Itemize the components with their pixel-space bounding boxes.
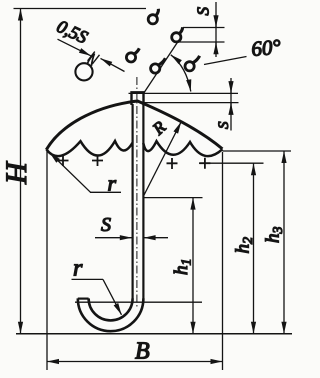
spoke tip cross 1 xyxy=(58,155,69,166)
radius R line xyxy=(143,122,181,197)
spoke tip cross 4 xyxy=(199,158,210,169)
ferrule xyxy=(132,92,144,105)
svg-text:h2: h2 xyxy=(233,237,257,254)
shaft left line xyxy=(132,104,134,299)
leader 0.5S lower xyxy=(101,58,125,71)
dimension S shaft leader left xyxy=(95,237,132,239)
hook tip level line xyxy=(75,301,202,303)
dimension S shaft leader right xyxy=(144,237,168,239)
dimension H line xyxy=(20,9,22,334)
extension S right upper xyxy=(129,92,239,94)
svg-text:h3: h3 xyxy=(263,227,287,244)
ground baseline xyxy=(16,333,292,335)
drop 5 xyxy=(126,48,139,62)
svg-text:B: B xyxy=(135,339,150,365)
drop 1 xyxy=(148,9,158,24)
hook inner arc xyxy=(89,298,133,320)
shaft right line xyxy=(142,104,144,299)
extension line h2 top xyxy=(199,162,264,164)
S right arrow upper xyxy=(230,82,232,93)
drop 3 xyxy=(151,58,166,73)
extension line h3 top xyxy=(223,150,292,152)
svg-text:60°: 60° xyxy=(250,34,282,61)
thickness tick 2 xyxy=(92,55,99,64)
spoke tip cross 3 xyxy=(167,158,178,169)
extension line B left xyxy=(46,151,48,370)
svg-text:S: S xyxy=(194,7,213,16)
dimension S right line xyxy=(230,78,232,131)
dimension h3 line xyxy=(283,151,285,334)
S top arrow upper xyxy=(215,16,217,27)
umbrella canopy arc xyxy=(46,101,222,150)
svg-text:S: S xyxy=(101,214,111,236)
hook tip cap xyxy=(78,298,89,300)
r canopy underline xyxy=(90,191,121,193)
svg-text:S: S xyxy=(216,121,232,129)
shaft centerline xyxy=(136,77,138,308)
hook outer arc xyxy=(78,298,144,331)
extension S right lower xyxy=(144,102,239,104)
leader 0.5S upper xyxy=(58,39,91,56)
drop 2 xyxy=(172,27,183,42)
rain 60 degree line xyxy=(144,40,180,94)
leader 60 xyxy=(204,57,247,65)
angle arc arrows xyxy=(171,55,191,92)
thickness tick 1 xyxy=(88,52,95,61)
extension line B right xyxy=(222,152,224,370)
svg-text:r: r xyxy=(73,256,83,282)
svg-text:H: H xyxy=(0,160,33,185)
r handle leader xyxy=(103,279,122,314)
big drop outline xyxy=(75,54,94,81)
S right arrow lower xyxy=(230,103,232,114)
extension S top lower xyxy=(176,41,225,43)
svg-text:R: R xyxy=(148,117,170,139)
umbrella scalloped edge xyxy=(47,141,223,156)
extension line h1 top xyxy=(143,197,202,199)
extension line H top xyxy=(14,8,147,10)
svg-text:h1: h1 xyxy=(171,259,195,276)
r canopy leader xyxy=(50,153,91,193)
svg-text:0,5S: 0,5S xyxy=(54,16,91,47)
S top arrow lower xyxy=(215,42,217,53)
extension S top upper xyxy=(183,27,225,29)
dimension h2 line xyxy=(253,163,255,334)
dimension B line xyxy=(47,361,223,363)
spoke tip cross 2 xyxy=(92,155,103,166)
r handle underline xyxy=(72,278,104,280)
dimension S top line xyxy=(215,2,217,57)
drop 4 xyxy=(185,56,200,71)
dimension h1 line xyxy=(192,198,194,334)
